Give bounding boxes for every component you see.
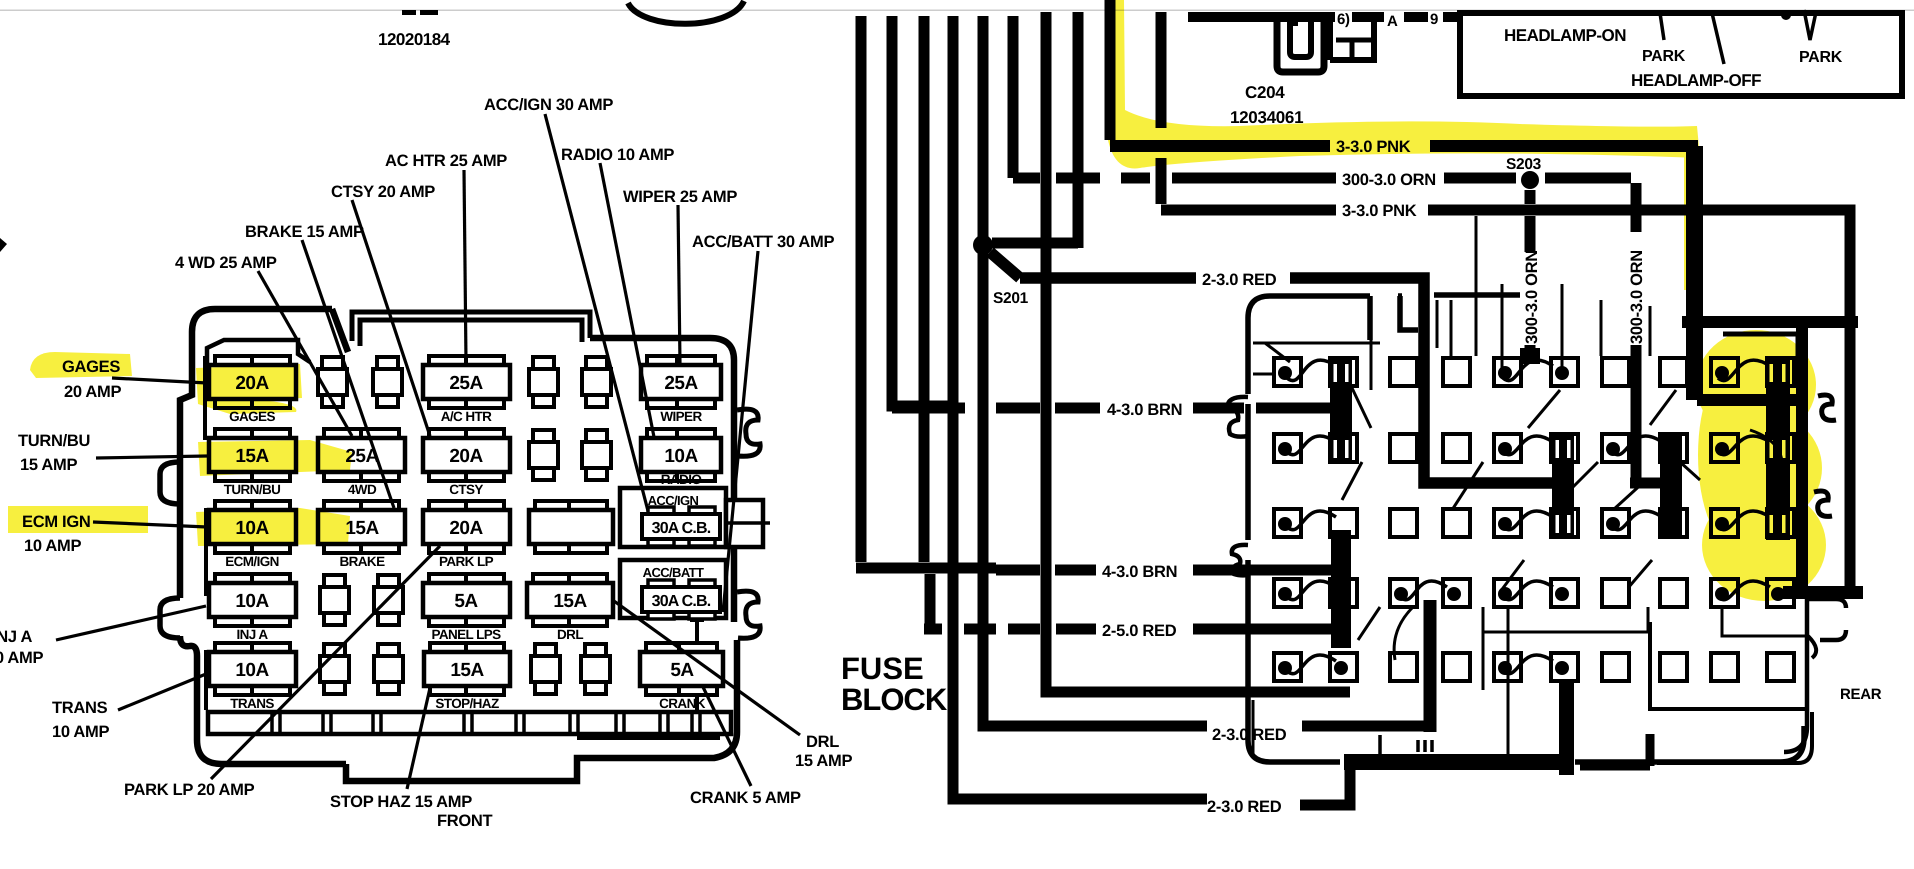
- small terminal: [318, 357, 347, 407]
- fuse 25A 4WD: [318, 429, 405, 497]
- connector C204 symbol: [1277, 18, 1324, 72]
- ACC/IGN circuit breaker box: [620, 488, 726, 547]
- small terminal: [374, 575, 403, 625]
- svg-text:HEADLAMP-ON: HEADLAMP-ON: [1504, 26, 1626, 45]
- svg-text:A/C HTR: A/C HTR: [441, 409, 492, 424]
- svg-text:ACC/BATT 30 AMP: ACC/BATT 30 AMP: [692, 233, 834, 251]
- heavy bar col2 rows C-E: [1331, 530, 1351, 648]
- svg-text:CTSY 20 AMP: CTSY 20 AMP: [331, 183, 435, 201]
- bus wire G: [1105, 0, 1116, 140]
- svg-text:S203: S203: [1506, 156, 1542, 173]
- small terminal: [529, 430, 558, 480]
- thin diag C-D: [1500, 560, 1524, 592]
- svg-text:TURN/BU: TURN/BU: [224, 482, 281, 497]
- thin diag A8-B: [1650, 390, 1676, 425]
- terminal pad A3: [1390, 358, 1417, 386]
- terminal pad A2: [1330, 358, 1357, 386]
- terminal pad D3: [1390, 579, 1417, 607]
- svg-text:25A: 25A: [664, 373, 698, 394]
- svg-text:4-3.0 BRN: 4-3.0 BRN: [1102, 563, 1177, 581]
- terminal pad D10: [1767, 579, 1794, 607]
- svg-text:10 AMP: 10 AMP: [0, 649, 43, 667]
- fuse 10A ECM/IGN: [209, 501, 296, 569]
- thin drop to A4: [1450, 300, 1453, 356]
- svg-text:PARK: PARK: [1642, 48, 1686, 65]
- bus wire E2: [1008, 16, 1019, 178]
- leader ACC/BATT: [723, 251, 758, 612]
- small dashes bottom: [1380, 735, 1432, 757]
- svg-text:DRL: DRL: [806, 733, 839, 751]
- trace B9-B10: [1718, 436, 1770, 455]
- bus wire H: [1156, 12, 1167, 204]
- terminal pad C5: [1494, 509, 1521, 537]
- leader GAGES: [112, 378, 207, 383]
- small terminal: [582, 357, 611, 407]
- cut-off part number text fragment: [402, 10, 416, 15]
- case right clip hooks: [737, 409, 760, 456]
- terminal pad B9: [1711, 434, 1738, 462]
- terminal pad C8: [1660, 509, 1687, 537]
- terminal pad E4: [1443, 653, 1470, 681]
- terminal pad E10: [1767, 653, 1794, 681]
- terminal pad D8: [1660, 579, 1687, 607]
- fuse 5A CRANK: [640, 643, 723, 711]
- svg-text:PARK LP: PARK LP: [439, 554, 494, 569]
- leader INJ A: [56, 606, 206, 640]
- leader RADIO: [600, 163, 654, 437]
- heavy bar col8 rows B-C: [1660, 434, 1682, 538]
- terminal pad B7: [1602, 434, 1629, 462]
- thin trace below A2: [1352, 388, 1371, 428]
- wire 3-3.0 PNK second: [1161, 210, 1850, 592]
- thin trace B2-C2: [1342, 462, 1362, 500]
- trace C5-C6: [1503, 511, 1553, 530]
- svg-text:300-3.0 ORN: 300-3.0 ORN: [1628, 250, 1646, 344]
- highlight along 3-3.0 PNK wire: [1106, 0, 1700, 168]
- terminal pad A4: [1443, 358, 1470, 386]
- inner top profile bumps: [207, 340, 310, 364]
- terminal pad B1: [1274, 434, 1301, 462]
- small terminal: [581, 644, 610, 694]
- thin diag A6-B: [1528, 390, 1560, 428]
- terminal pad A9: [1711, 358, 1738, 386]
- trace C9-C10: [1718, 511, 1770, 530]
- hook at inner frame: [1818, 395, 1836, 420]
- case left/top outline: [180, 309, 348, 764]
- thin traces below D: [1358, 607, 1413, 660]
- arc fragment of connector circle at top: [628, 1, 744, 24]
- svg-text:WIPER: WIPER: [660, 409, 702, 424]
- terminal pad B10: [1767, 434, 1794, 462]
- svg-text:10A: 10A: [664, 446, 698, 467]
- terminal pad E5: [1494, 653, 1521, 681]
- leader PARK LP: [211, 546, 440, 779]
- svg-text:TRANS: TRANS: [230, 696, 274, 711]
- svg-text:REAR: REAR: [1840, 686, 1882, 703]
- fuse 25A A/C HTR: [423, 356, 510, 424]
- leader WIPER: [678, 205, 680, 364]
- right block top inner frame: [1435, 296, 1520, 340]
- svg-text:BRAKE 15 AMP: BRAKE 15 AMP: [245, 223, 364, 241]
- small terminal: [529, 357, 558, 407]
- svg-text:6): 6): [1337, 11, 1350, 28]
- terminal pad B6: [1551, 434, 1578, 462]
- highlight over 10A ECM/IGN fuse: [196, 508, 350, 546]
- terminal pad D2: [1330, 579, 1357, 607]
- svg-text:300-3.0 ORN: 300-3.0 ORN: [1342, 171, 1436, 189]
- svg-text:CTSY: CTSY: [449, 482, 483, 497]
- bus wire E: [983, 16, 1430, 726]
- svg-text:CRANK: CRANK: [659, 696, 706, 711]
- bottom-middle elbow: [1580, 734, 1650, 766]
- terminal pad D6: [1551, 579, 1578, 607]
- svg-text:HEADLAMP-OFF: HEADLAMP-OFF: [1631, 71, 1761, 90]
- svg-text:20A: 20A: [449, 518, 483, 539]
- svg-text:FRONT: FRONT: [437, 812, 493, 830]
- terminal pad C1: [1274, 509, 1301, 537]
- svg-text:A: A: [1387, 13, 1398, 30]
- S201 splice: [973, 235, 993, 255]
- svg-text:3-3.0 PNK: 3-3.0 PNK: [1342, 202, 1417, 220]
- svg-text:2-5.0 RED: 2-5.0 RED: [1102, 622, 1177, 640]
- fuse 10A TRANS: [209, 643, 296, 711]
- svg-text:CRANK 5 AMP: CRANK 5 AMP: [690, 789, 801, 807]
- leader DRL: [614, 601, 800, 735]
- small terminal: [320, 644, 349, 694]
- svg-text:5A: 5A: [670, 660, 694, 681]
- case left clip tabs: [160, 462, 180, 504]
- thin drop to A5: [1501, 284, 1504, 372]
- case top edge right of lid: [590, 338, 734, 500]
- leader TRANS: [118, 674, 206, 710]
- terminal pad A8: [1660, 358, 1687, 386]
- svg-text:RADIO: RADIO: [661, 472, 702, 487]
- wire 3-3.0 PNK (highlighted): [1110, 146, 1692, 400]
- svg-text:ECM/IGN: ECM/IGN: [225, 554, 279, 569]
- highlight over 20A GAGES fuse: [196, 364, 302, 414]
- fuse 25A WIPER: [641, 356, 721, 424]
- terminal pad D7: [1602, 579, 1629, 607]
- terminal pad E3: [1390, 653, 1417, 681]
- terminal pad A5: [1494, 358, 1521, 386]
- svg-text:15 AMP: 15 AMP: [795, 752, 852, 770]
- trace A5-A6: [1503, 360, 1553, 380]
- svg-text:15A: 15A: [345, 518, 379, 539]
- top edge wire row above C204: [1188, 12, 1457, 22]
- svg-text:INJ A: INJ A: [0, 628, 32, 646]
- terminal pad E9: [1711, 653, 1738, 681]
- svg-text:BLOCK: BLOCK: [841, 682, 948, 717]
- bus wire F2: [1073, 12, 1084, 248]
- svg-text:25A: 25A: [449, 373, 483, 394]
- trace B5-B6: [1503, 436, 1553, 455]
- thin drop E5: [1507, 607, 1510, 758]
- S203 drop wire: [1525, 190, 1536, 252]
- highlight over GAGES label: [30, 352, 132, 378]
- wire 300-3.0 ORN: [1013, 173, 1631, 184]
- terminal pad B3: [1390, 434, 1417, 462]
- leader STOP HAZ: [407, 688, 430, 789]
- svg-text:4 WD 25 AMP: 4 WD 25 AMP: [175, 254, 277, 272]
- svg-text:4-3.0 BRN: 4-3.0 BRN: [1107, 401, 1182, 419]
- thin housing outline below D: [1483, 607, 1648, 690]
- trace E5-E6: [1503, 655, 1553, 674]
- wire 4-3.0 BRN upper: [892, 403, 1333, 414]
- thin trace B4-C4: [1452, 462, 1483, 510]
- trace B1-B2: [1287, 436, 1336, 455]
- small terminal: [374, 644, 403, 694]
- svg-text:PARK: PARK: [1799, 49, 1843, 66]
- terminal pad D1: [1274, 579, 1301, 607]
- ACC/BATT circuit breaker box: [620, 560, 726, 619]
- bus wire B: [892, 16, 953, 406]
- right fuse block outline: [1248, 295, 1804, 762]
- svg-text:ACC/IGN 30 AMP: ACC/IGN 30 AMP: [484, 96, 613, 114]
- trace A9-A10: [1718, 360, 1770, 380]
- thin step: [1370, 296, 1373, 390]
- trace D3-D4: [1400, 581, 1447, 600]
- heavy bar row D col10 to frame: [1783, 586, 1863, 599]
- hook: [1808, 636, 1816, 658]
- leader ACC/IGN: [545, 114, 648, 511]
- terminal pad C10: [1767, 509, 1794, 537]
- trace C7-C8: [1612, 511, 1662, 530]
- svg-text:2-3.0 RED: 2-3.0 RED: [1202, 271, 1277, 289]
- svg-text:TRANS: TRANS: [52, 699, 108, 717]
- terminal pad C3: [1390, 509, 1417, 537]
- svg-text:15A: 15A: [450, 660, 484, 681]
- svg-text:STOP/HAZ: STOP/HAZ: [435, 696, 499, 711]
- highlight over 15A TURN/BU fuse: [198, 440, 352, 476]
- svg-text:15A: 15A: [553, 591, 587, 612]
- trace B7-B8: [1612, 436, 1662, 455]
- svg-text:2-3.0 RED: 2-3.0 RED: [1207, 798, 1282, 816]
- terminal pad D9: [1711, 579, 1738, 607]
- leader CTSY: [352, 200, 430, 436]
- terminal pad C6: [1551, 509, 1578, 537]
- ORN drop to row A: [1525, 345, 1536, 356]
- riser to row D: [1424, 600, 1437, 732]
- thin drop to A6: [1561, 284, 1564, 372]
- case inner wall lines: [205, 356, 206, 710]
- svg-text:10A: 10A: [235, 660, 269, 681]
- terminal pad C4: [1443, 509, 1470, 537]
- bus wire C: [919, 16, 930, 562]
- terminal pad D4: [1443, 579, 1470, 607]
- terminal pad E6: [1551, 653, 1578, 681]
- fuse 15A TURN/BU: [209, 429, 296, 497]
- terminal pad B5: [1494, 434, 1521, 462]
- svg-text:PARK LP 20 AMP: PARK LP 20 AMP: [124, 781, 255, 799]
- thin drop right: [1600, 300, 1603, 356]
- terminal pad A6: [1551, 358, 1578, 386]
- terminal pad D5: [1494, 579, 1521, 607]
- bus wire F: [1046, 12, 1350, 692]
- terminal pad E8: [1660, 653, 1687, 681]
- svg-text:12020184: 12020184: [378, 30, 451, 49]
- block bottom-right outline: [1650, 622, 1812, 763]
- wire 4-3.0 BRN lower: [861, 568, 1341, 570]
- leader ECM IGN: [93, 522, 207, 527]
- fuse 20A CTSY: [423, 429, 510, 497]
- leader BRAKE: [302, 240, 394, 508]
- scan artifact line across top: [0, 10, 1914, 12]
- fuse 20A GAGES: [209, 356, 296, 424]
- svg-text:30A C.B.: 30A C.B.: [652, 520, 711, 537]
- leader CRANK: [703, 687, 751, 786]
- fuse 10A INJ A: [209, 574, 296, 642]
- trace E1-E2: [1287, 655, 1336, 674]
- bus wire D: [953, 16, 1350, 805]
- thin trace top-left: [1253, 343, 1380, 374]
- terminal pad B8: [1660, 434, 1687, 462]
- svg-text:10 AMP: 10 AMP: [52, 723, 109, 741]
- svg-text:INJ A: INJ A: [236, 627, 268, 642]
- svg-text:4WD: 4WD: [348, 482, 377, 497]
- small terminal: [582, 430, 611, 480]
- fuse 15A DRL: [527, 574, 613, 642]
- thin trace below D9: [1722, 607, 1808, 636]
- small terminal: [320, 575, 349, 625]
- heavy bar col6 rows B-C: [1552, 434, 1574, 538]
- leader TURN/BU: [96, 456, 207, 458]
- fuse None: [529, 501, 613, 553]
- svg-text:DRL: DRL: [557, 627, 583, 642]
- thin traces row B-C: [1560, 462, 1700, 500]
- svg-text:ACC/BATT: ACC/BATT: [643, 565, 704, 580]
- leader AC HTR: [464, 170, 466, 362]
- svg-text:20 AMP: 20 AMP: [64, 383, 121, 401]
- small terminal: [531, 644, 560, 694]
- bottom heavy bar: [1344, 754, 1573, 770]
- highlight blob over right-side circuit: [1696, 330, 1826, 601]
- svg-text:9: 9: [1430, 11, 1438, 28]
- highlight over ECM IGN label: [8, 506, 148, 533]
- S203 splice: [1521, 171, 1539, 189]
- terminal pad E7: [1602, 653, 1629, 681]
- svg-text:C204: C204: [1245, 83, 1285, 102]
- S201 arm to bus F2: [992, 238, 1078, 249]
- right block left clip tabs: [1228, 397, 1248, 437]
- svg-text:PANEL LPS: PANEL LPS: [431, 627, 501, 642]
- svg-text:15 AMP: 15 AMP: [20, 456, 77, 474]
- ACC/IGN breaker side handle: [726, 500, 763, 547]
- trace D1-D2: [1287, 581, 1336, 600]
- svg-text:WIPER 25 AMP: WIPER 25 AMP: [623, 188, 737, 206]
- fuse 20A PARK LP: [423, 501, 510, 569]
- bottom bus strip: [208, 712, 731, 734]
- fuse 15A BRAKE: [318, 501, 405, 569]
- highlight down right corner of PNK wire: [1684, 150, 1701, 290]
- svg-text:10 AMP: 10 AMP: [24, 537, 81, 555]
- thin diag C-D 2: [1628, 560, 1652, 588]
- fuse 15A STOP/HAZ: [424, 643, 510, 711]
- terminal pad A1: [1274, 358, 1301, 386]
- terminal pad B4: [1443, 434, 1470, 462]
- svg-text:300-3.0 ORN: 300-3.0 ORN: [1523, 250, 1541, 344]
- heavy bar below row E col6: [1559, 681, 1574, 775]
- rear connector outline bottom right: [1784, 599, 1846, 752]
- terminal pad A7: [1602, 358, 1629, 386]
- fuse 10A: [641, 429, 721, 481]
- thin curve right: [1750, 430, 1782, 462]
- svg-text:STOP HAZ 15 AMP: STOP HAZ 15 AMP: [330, 793, 472, 811]
- svg-text:S201: S201: [993, 290, 1029, 307]
- svg-text:RADIO 10 AMP: RADIO 10 AMP: [561, 146, 674, 164]
- svg-text:FUSE: FUSE: [841, 651, 924, 686]
- inner frame light: [1723, 334, 1798, 360]
- bus wire A: [856, 16, 975, 629]
- svg-text:BRAKE: BRAKE: [339, 554, 385, 569]
- thin stub: [1436, 300, 1439, 348]
- heavy bar col2 rows A-B: [1330, 358, 1352, 462]
- case bottom outline: [346, 640, 737, 781]
- svg-text:20A: 20A: [449, 446, 483, 467]
- trace D5-D6: [1503, 581, 1553, 600]
- cut-off text at left edge: [0, 238, 7, 252]
- thin drop right 2: [1649, 306, 1652, 356]
- wire 2-3.0 RED upper: [990, 252, 1560, 483]
- svg-text:TURN/BU: TURN/BU: [18, 432, 90, 450]
- trace A1-A2: [1287, 360, 1336, 380]
- terminal pad A10: [1767, 358, 1794, 386]
- wire 2-5.0 RED: [924, 624, 1343, 635]
- heavy bar col10 rows A-C: [1766, 358, 1790, 540]
- svg-text:30A C.B.: 30A C.B.: [652, 593, 711, 610]
- headlamp switch box: [1460, 10, 1902, 96]
- thin drop near A5: [1475, 216, 1478, 356]
- svg-text:10A: 10A: [235, 591, 269, 612]
- terminal pad C7: [1602, 509, 1629, 537]
- leader 4WD: [258, 271, 352, 436]
- terminal pad B2: [1330, 434, 1357, 462]
- terminal pad C9: [1711, 509, 1738, 537]
- ORN2 drop and elbow: [1630, 183, 1671, 538]
- svg-text:5A: 5A: [454, 591, 478, 612]
- terminal pad E2: [1330, 653, 1357, 681]
- fuse 5A PANEL LPS: [423, 574, 510, 642]
- small terminal: [373, 357, 402, 407]
- terminal pad E1: [1274, 653, 1301, 681]
- svg-text:AC HTR 25 AMP: AC HTR 25 AMP: [385, 152, 507, 170]
- terminal pad C2: [1330, 509, 1357, 537]
- trace C1-C2: [1287, 511, 1336, 530]
- raised lid: [352, 312, 590, 346]
- trace D9-D10: [1718, 581, 1770, 600]
- inner frame heavy: [1682, 146, 1858, 592]
